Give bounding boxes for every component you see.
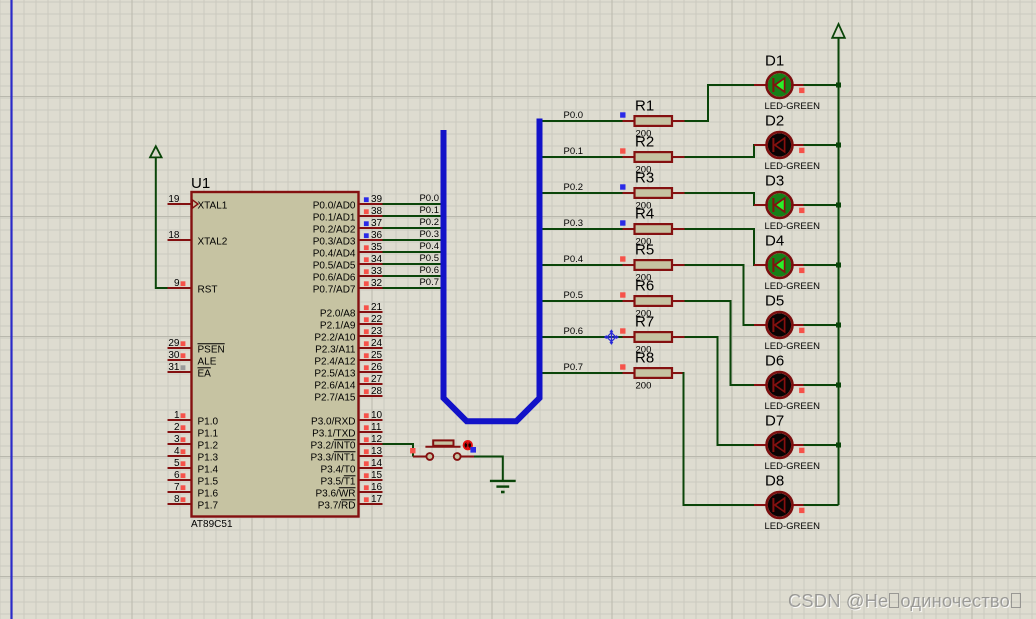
U1 reference label xyxy=(191,175,210,192)
net state indicator square at R2 input xyxy=(620,148,625,153)
svg-text:1: 1 xyxy=(174,410,180,421)
net label P0.4 (at bus entry) xyxy=(419,241,439,252)
wire VCC rail vertical (power arrow down to D8) xyxy=(838,38,840,505)
junction on VCC rail at D3 xyxy=(836,203,841,208)
net state indicator square at D6 anode xyxy=(799,388,804,393)
svg-text:XTAL2: XTAL2 xyxy=(198,237,228,248)
sheet border (left edge of schematic sheet) xyxy=(10,0,12,619)
wire P0.6 from bus to resistor R7 xyxy=(543,336,623,338)
resistor R4 value label 200 xyxy=(636,237,652,248)
net state indicator square at R1 input xyxy=(620,112,625,117)
svg-text:18: 18 xyxy=(168,230,180,241)
net state indicator square at D2 anode xyxy=(799,148,804,153)
svg-text:R3: R3 xyxy=(635,170,654,187)
svg-text:P0.7/AD7: P0.7/AD7 xyxy=(313,285,356,296)
svg-text:P2.1/A9: P2.1/A9 xyxy=(320,321,356,332)
U1 pin 23 P2.2/A10 xyxy=(314,326,382,344)
svg-text:2: 2 xyxy=(174,422,180,433)
U1 pin 18 XTAL2 xyxy=(168,230,228,248)
svg-text:33: 33 xyxy=(371,266,383,277)
svg-text:P0.3: P0.3 xyxy=(564,218,584,229)
wire P0.4 from U1 pin 35 to bus xyxy=(383,251,442,253)
svg-text:XTAL1: XTAL1 xyxy=(198,201,228,212)
svg-text:R1: R1 xyxy=(635,98,654,115)
net label P0.6 (at bus entry) xyxy=(419,265,439,276)
net state indicator square at R3 input xyxy=(620,184,625,189)
svg-text:P0.5: P0.5 xyxy=(419,253,439,264)
svg-text:P1.7: P1.7 xyxy=(198,501,219,512)
svg-text:P2.6/A14: P2.6/A14 xyxy=(314,381,356,392)
wire P0.2 from U1 pin 37 to bus xyxy=(383,227,442,229)
wire P0.7 from bus to resistor R8 xyxy=(543,372,623,374)
svg-text:19: 19 xyxy=(168,194,180,205)
svg-text:P0.2: P0.2 xyxy=(564,182,584,193)
U1 pin 30 ALE xyxy=(168,350,217,368)
net label P0.0 (at bus entry) xyxy=(419,193,439,204)
svg-text:P0.2: P0.2 xyxy=(419,217,439,228)
svg-text:P0.1: P0.1 xyxy=(564,146,584,157)
svg-text:LED-GREEN: LED-GREEN xyxy=(765,161,821,172)
LED D2 type label LED-GREEN xyxy=(765,161,821,172)
resistor R2 xyxy=(623,152,685,162)
U1 XTAL1 clock input marker xyxy=(192,200,198,208)
U1 pin 13 P3.3/INT1 xyxy=(310,446,382,464)
svg-text:D8: D8 xyxy=(765,473,784,490)
svg-text:ALE: ALE xyxy=(198,357,217,368)
net label P0.0 (at resistor R1) xyxy=(564,110,584,121)
push button (SPST momentary) xyxy=(413,440,474,460)
LED D4 type label LED-GREEN xyxy=(765,281,821,292)
wire from LED D5 to VCC rail xyxy=(804,324,839,326)
watermark xyxy=(788,590,1028,612)
svg-text:D2: D2 xyxy=(765,113,784,130)
LED D6 reference label xyxy=(765,353,784,370)
resistor R8 value label 200 xyxy=(636,381,652,392)
U1 pin 8 P1.7 xyxy=(168,494,219,512)
svg-text:P0.4: P0.4 xyxy=(564,254,584,265)
net state indicator square at D3 anode xyxy=(799,208,804,213)
resistor R1 reference label xyxy=(635,98,654,115)
wire P0.0 from bus to resistor R1 xyxy=(543,120,623,122)
LED D2 reference label xyxy=(765,113,784,130)
svg-text:P2.2/A10: P2.2/A10 xyxy=(314,333,356,344)
U1 pin 35 P0.4/AD4 xyxy=(313,242,383,260)
svg-text:36: 36 xyxy=(371,230,383,241)
svg-text:P2.5/A13: P2.5/A13 xyxy=(314,369,356,380)
resistor R1 xyxy=(623,116,685,126)
ground symbol xyxy=(490,481,516,492)
resistor R7 value label 200 xyxy=(636,345,652,356)
wire P0.7 from U1 pin 32 to bus xyxy=(383,287,442,289)
svg-text:27: 27 xyxy=(371,374,383,385)
svg-text:P3.7/RD: P3.7/RD xyxy=(318,501,356,512)
U1 pin 17 P3.7/RD xyxy=(318,494,383,512)
svg-text:AT89C51: AT89C51 xyxy=(191,519,233,530)
svg-text:P3.1/TXD: P3.1/TXD xyxy=(312,429,355,440)
push button actuation marker (red circle) xyxy=(464,441,472,449)
svg-text:LED-GREEN: LED-GREEN xyxy=(765,281,821,292)
resistor R7 xyxy=(623,332,685,342)
net label P0.2 (at resistor R3) xyxy=(564,182,584,193)
wire from R4 to LED D4 xyxy=(685,229,755,265)
power symbol (VCC arrow) top right, feeding LED rail xyxy=(832,24,845,38)
U1 pin 10 P3.0/RXD xyxy=(311,410,383,428)
svg-text:12: 12 xyxy=(371,434,383,445)
wire P0.4 from bus to resistor R5 xyxy=(543,264,623,266)
mouse cursor (move tool crosshair) on P0.6 wire xyxy=(605,330,618,344)
svg-text:P0.5/AD5: P0.5/AD5 xyxy=(313,261,356,272)
svg-text:LED-GREEN: LED-GREEN xyxy=(765,461,821,472)
junction on VCC rail at D6 xyxy=(836,383,841,388)
svg-text:LED-GREEN: LED-GREEN xyxy=(765,341,821,352)
svg-text:EA: EA xyxy=(198,369,212,380)
net label P0.1 (at bus entry) xyxy=(419,205,439,216)
LED D1 (LED-GREEN, lit) xyxy=(754,72,804,98)
svg-text:37: 37 xyxy=(371,218,383,229)
net label P0.3 (at resistor R4) xyxy=(564,218,584,229)
U1 pin 12 P3.2/INT0 xyxy=(310,434,382,452)
wire P0.0 from U1 pin 39 to bus xyxy=(383,203,442,205)
wire from left power arrow down to RST pin xyxy=(156,157,168,288)
svg-text:P0.3/AD3: P0.3/AD3 xyxy=(313,237,356,248)
net state indicator square at R8 input xyxy=(620,364,625,369)
svg-text:R8: R8 xyxy=(635,350,654,367)
wire P0.6 from U1 pin 33 to bus xyxy=(383,275,442,277)
svg-text:P1.4: P1.4 xyxy=(198,465,219,476)
svg-text:P3.4/T0: P3.4/T0 xyxy=(320,465,355,476)
resistor R3 xyxy=(623,188,685,198)
LED D3 type label LED-GREEN xyxy=(765,221,821,232)
U1 pin 22 P2.1/A9 xyxy=(320,314,383,332)
net state indicator square at D8 anode xyxy=(799,508,804,513)
LED D7 type label LED-GREEN xyxy=(765,461,821,472)
bus (P0.0..P0.7, thick blue U-shape) xyxy=(444,119,540,422)
U1 pin 21 P2.0/A8 xyxy=(320,302,383,320)
U1 pin 19 XTAL1 xyxy=(168,194,228,212)
resistor R3 value label 200 xyxy=(636,201,652,212)
net state indicator square at D1 anode xyxy=(799,88,804,93)
svg-text:6: 6 xyxy=(174,470,180,481)
svg-text:P0.0/AD0: P0.0/AD0 xyxy=(313,201,356,212)
wire from button to ground xyxy=(474,457,503,481)
U1 pin 3 P1.2 xyxy=(168,434,219,452)
svg-text:P3.5/T1: P3.5/T1 xyxy=(320,477,355,488)
wire P0.1 from bus to resistor R2 xyxy=(543,156,623,158)
wire P0.2 from bus to resistor R3 xyxy=(543,192,623,194)
svg-text:38: 38 xyxy=(371,206,383,217)
svg-text:15: 15 xyxy=(371,470,383,481)
U1 pin 29 PSEN xyxy=(168,338,225,356)
U1 pin 11 P3.1/TXD xyxy=(312,422,382,440)
U1 pin 5 P1.4 xyxy=(168,458,219,476)
svg-text:30: 30 xyxy=(168,350,180,361)
wire from LED D7 to VCC rail xyxy=(804,444,839,446)
svg-text:25: 25 xyxy=(371,350,383,361)
U1 value label AT89C51 xyxy=(191,519,233,530)
resistor R3 reference label xyxy=(635,170,654,187)
LED D8 reference label xyxy=(765,473,784,490)
wire from LED D4 to VCC rail xyxy=(804,264,839,266)
svg-text:17: 17 xyxy=(371,494,383,505)
svg-text:14: 14 xyxy=(371,458,383,469)
LED D2 (LED-GREEN, off) xyxy=(754,132,804,158)
U1 pin 24 P2.3/A11 xyxy=(315,338,382,356)
svg-text:P2.0/A8: P2.0/A8 xyxy=(320,309,356,320)
junction on VCC rail at D5 xyxy=(836,323,841,328)
svg-text:D3: D3 xyxy=(765,173,784,190)
svg-text:D6: D6 xyxy=(765,353,784,370)
resistor R2 value label 200 xyxy=(636,165,652,176)
svg-text:D7: D7 xyxy=(765,413,784,430)
svg-text:P0.7: P0.7 xyxy=(564,362,584,373)
wire from R1 to LED D1 xyxy=(685,85,755,121)
svg-text:P0.6: P0.6 xyxy=(564,326,584,337)
LED D3 (LED-GREEN, lit) xyxy=(754,192,804,218)
U1 pin 26 P2.5/A13 xyxy=(314,362,382,380)
net state indicator square on button wire xyxy=(410,448,415,453)
svg-text:U1: U1 xyxy=(191,175,210,192)
U1 pin 9 RST xyxy=(168,278,218,296)
net state indicator square at R5 input xyxy=(620,256,625,261)
svg-text:8: 8 xyxy=(174,494,180,505)
svg-text:P3.2/INT0: P3.2/INT0 xyxy=(310,441,355,452)
wire P0.5 from bus to resistor R6 xyxy=(543,300,623,302)
svg-text:P0.0: P0.0 xyxy=(564,110,584,121)
svg-text:P0.4/AD4: P0.4/AD4 xyxy=(313,249,356,260)
wire from R6 to LED D6 xyxy=(685,301,755,385)
net state indicator square at D4 anode xyxy=(799,268,804,273)
svg-text:R2: R2 xyxy=(635,134,654,151)
svg-text:P0.7: P0.7 xyxy=(419,277,439,288)
wire P0.3 from U1 pin 36 to bus xyxy=(383,239,442,241)
junction on VCC rail at D2 xyxy=(836,143,841,148)
U1 pin 7 P1.6 xyxy=(168,482,219,500)
svg-text:P0.6: P0.6 xyxy=(419,265,439,276)
LED D7 reference label xyxy=(765,413,784,430)
resistor R4 reference label xyxy=(635,206,654,223)
wire P0.1 from U1 pin 38 to bus xyxy=(383,215,442,217)
net state indicator square at R4 input xyxy=(620,220,625,225)
resistor R5 value label 200 xyxy=(636,273,652,284)
wire from R3 to LED D3 xyxy=(685,193,755,205)
svg-text:P0.3: P0.3 xyxy=(419,229,439,240)
svg-text:PSEN: PSEN xyxy=(198,345,225,356)
resistor R2 reference label xyxy=(635,134,654,151)
svg-text:28: 28 xyxy=(371,386,383,397)
net state indicator square at button output xyxy=(470,447,476,453)
svg-text:P1.2: P1.2 xyxy=(198,441,219,452)
LED D6 type label LED-GREEN xyxy=(765,401,821,412)
svg-text:LED-GREEN: LED-GREEN xyxy=(765,221,821,232)
wire P0.3 from bus to resistor R4 xyxy=(543,228,623,230)
U1 pin 16 P3.6/WR xyxy=(315,482,382,500)
svg-text:D4: D4 xyxy=(765,233,784,250)
LED D3 reference label xyxy=(765,173,784,190)
net label P0.7 (at resistor R8) xyxy=(564,362,584,373)
svg-text:P2.3/A11: P2.3/A11 xyxy=(315,345,356,356)
wire from R5 to LED D5 xyxy=(685,265,755,325)
svg-text:LED-GREEN: LED-GREEN xyxy=(765,101,821,112)
resistor R8 reference label xyxy=(635,350,654,367)
U1 pin 34 P0.5/AD5 xyxy=(313,254,383,272)
svg-text:16: 16 xyxy=(371,482,383,493)
LED D4 (LED-GREEN, lit) xyxy=(754,252,804,278)
net label P0.6 (at resistor R7) xyxy=(564,326,584,337)
net label P0.3 (at bus entry) xyxy=(419,229,439,240)
junction on VCC rail at D4 xyxy=(836,263,841,268)
svg-text:21: 21 xyxy=(371,302,383,313)
junction on VCC rail at D7 xyxy=(836,443,841,448)
svg-text:P0.5: P0.5 xyxy=(564,290,584,301)
svg-text:R4: R4 xyxy=(635,206,654,223)
wire from R7 to LED D7 xyxy=(685,337,755,445)
svg-text:26: 26 xyxy=(371,362,383,373)
svg-text:P3.3/INT1: P3.3/INT1 xyxy=(310,453,355,464)
LED D4 reference label xyxy=(765,233,784,250)
resistor R6 value label 200 xyxy=(636,309,652,320)
net label P0.5 (at bus entry) xyxy=(419,253,439,264)
U1 pin 4 P1.3 xyxy=(168,446,219,464)
wire from U1 pin 12 (P3.2/INT0) to push button xyxy=(383,444,414,457)
LED D5 (LED-GREEN, off) xyxy=(754,312,804,338)
resistor R7 reference label xyxy=(635,314,654,331)
svg-text:4: 4 xyxy=(174,446,180,457)
resistor R6 xyxy=(623,296,685,306)
wire from R8 to LED D8 xyxy=(684,373,755,505)
U1 pin 38 P0.1/AD1 xyxy=(313,206,383,224)
U1 pin 28 P2.7/A15 xyxy=(314,386,382,404)
wire from R2 to LED D2 xyxy=(685,145,755,157)
wire from LED D6 to VCC rail xyxy=(804,384,839,386)
svg-text:11: 11 xyxy=(371,422,382,433)
svg-text:13: 13 xyxy=(371,446,383,457)
svg-text:D5: D5 xyxy=(765,293,784,310)
U1 pin 6 P1.5 xyxy=(168,470,219,488)
svg-text:P3.6/WR: P3.6/WR xyxy=(315,489,355,500)
resistor R8 xyxy=(623,368,685,378)
svg-text:5: 5 xyxy=(174,458,180,469)
U1 pin 25 P2.4/A12 xyxy=(314,350,382,368)
svg-text:31: 31 xyxy=(168,362,180,373)
svg-text:P3.0/RXD: P3.0/RXD xyxy=(311,417,355,428)
net state indicator square at R7 input xyxy=(620,328,625,333)
svg-text:P0.1/AD1: P0.1/AD1 xyxy=(313,213,356,224)
resistor R6 reference label xyxy=(635,278,654,295)
U1 pin 15 P3.5/T1 xyxy=(320,470,382,488)
svg-text:24: 24 xyxy=(371,338,383,349)
svg-text:39: 39 xyxy=(371,194,383,205)
svg-text:LED-GREEN: LED-GREEN xyxy=(765,521,821,532)
net label P0.7 (at bus entry) xyxy=(419,277,439,288)
IC U1 AT89C51 body xyxy=(192,192,359,517)
U1 pin 33 P0.6/AD6 xyxy=(313,266,383,284)
svg-text:P0.6/AD6: P0.6/AD6 xyxy=(313,273,356,284)
svg-text:P0.4: P0.4 xyxy=(419,241,439,252)
U1 pin 27 P2.6/A14 xyxy=(314,374,382,392)
resistor R4 xyxy=(623,224,685,234)
svg-text:R7: R7 xyxy=(635,314,654,331)
wire from LED D1 to VCC rail xyxy=(804,84,839,86)
svg-text:3: 3 xyxy=(174,434,180,445)
U1 pin 14 P3.4/T0 xyxy=(320,458,382,476)
svg-text:200: 200 xyxy=(636,381,652,392)
svg-text:P0.1: P0.1 xyxy=(419,205,439,216)
svg-text:34: 34 xyxy=(371,254,383,265)
svg-text:P1.1: P1.1 xyxy=(198,429,219,440)
resistor R1 value label 200 xyxy=(636,129,652,140)
svg-text:35: 35 xyxy=(371,242,383,253)
svg-text:P2.7/A15: P2.7/A15 xyxy=(314,393,356,404)
power symbol (VCC arrow) left, feeding RST xyxy=(150,146,162,157)
LED D7 (LED-GREEN, off) xyxy=(754,432,804,458)
svg-text:7: 7 xyxy=(174,482,180,493)
U1 pin 2 P1.1 xyxy=(168,422,219,440)
wire P0.5 from U1 pin 34 to bus xyxy=(383,263,442,265)
net state indicator square at R6 input xyxy=(620,292,625,297)
U1 pin 1 P1.0 xyxy=(168,410,219,428)
svg-text:9: 9 xyxy=(174,278,180,289)
svg-text:LED-GREEN: LED-GREEN xyxy=(765,401,821,412)
resistor R5 xyxy=(623,260,685,270)
U1 pin 32 P0.7/AD7 xyxy=(313,278,383,296)
junction on VCC rail at D1 xyxy=(836,83,841,88)
svg-text:P0.2/AD2: P0.2/AD2 xyxy=(313,225,356,236)
svg-text:RST: RST xyxy=(198,285,218,296)
svg-text:R6: R6 xyxy=(635,278,654,295)
U1 pin 36 P0.3/AD3 xyxy=(313,230,383,248)
wire from LED D2 to VCC rail xyxy=(804,144,839,146)
svg-text:32: 32 xyxy=(371,278,383,289)
net label P0.4 (at resistor R5) xyxy=(564,254,584,265)
net label P0.1 (at resistor R2) xyxy=(564,146,584,157)
LED D6 (LED-GREEN, off) xyxy=(754,372,804,398)
LED D5 type label LED-GREEN xyxy=(765,341,821,352)
svg-text:R5: R5 xyxy=(635,242,654,259)
U1 pin 31 EA xyxy=(168,362,212,380)
svg-text:P1.6: P1.6 xyxy=(198,489,219,500)
wire from LED D8 to VCC rail xyxy=(804,504,839,506)
LED D1 type label LED-GREEN xyxy=(765,101,821,112)
svg-text:29: 29 xyxy=(168,338,180,349)
svg-text:P1.3: P1.3 xyxy=(198,453,219,464)
LED D8 (LED-GREEN, off) xyxy=(754,492,804,518)
net label P0.2 (at bus entry) xyxy=(419,217,439,228)
svg-text:P2.4/A12: P2.4/A12 xyxy=(314,357,356,368)
U1 pin 37 P0.2/AD2 xyxy=(313,218,383,236)
LED D1 reference label xyxy=(765,53,784,70)
net state indicator square at D5 anode xyxy=(799,328,804,333)
svg-text:22: 22 xyxy=(371,314,383,325)
svg-text:P1.0: P1.0 xyxy=(198,417,219,428)
svg-text:P1.5: P1.5 xyxy=(198,477,219,488)
resistor R5 reference label xyxy=(635,242,654,259)
net label P0.5 (at resistor R6) xyxy=(564,290,584,301)
U1 pin 39 P0.0/AD0 xyxy=(313,194,383,212)
net state indicator square at D7 anode xyxy=(799,448,804,453)
svg-text:P0.0: P0.0 xyxy=(419,193,439,204)
svg-text:10: 10 xyxy=(371,410,383,421)
LED D8 type label LED-GREEN xyxy=(765,521,821,532)
svg-text:D1: D1 xyxy=(765,53,784,70)
svg-text:23: 23 xyxy=(371,326,383,337)
wire from LED D3 to VCC rail xyxy=(804,204,839,206)
LED D5 reference label xyxy=(765,293,784,310)
